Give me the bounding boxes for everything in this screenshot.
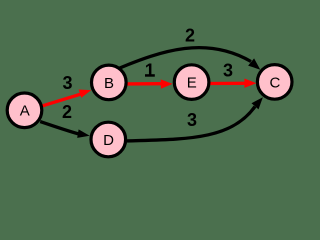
- node E: [174, 65, 209, 100]
- arrowhead of edge A-B (red): [79, 90, 92, 98]
- svg-text:C: C: [269, 74, 280, 91]
- label 1 on edge B-E: [145, 61, 155, 81]
- svg-text:D: D: [103, 132, 114, 149]
- arrowhead of edge E-C (red): [244, 79, 256, 88]
- wire: edge D-C (bottom curve): [125, 107, 255, 142]
- arrowhead of edge B-E (red): [161, 79, 173, 88]
- node D: [91, 122, 126, 157]
- wire: edge E-C (red path segment): [208, 82, 246, 85]
- svg-text:3: 3: [62, 73, 72, 93]
- wire: edge B-E (red path segment): [122, 82, 162, 86]
- node B: [92, 65, 127, 100]
- svg-text:B: B: [104, 75, 114, 92]
- svg-text:3: 3: [223, 61, 233, 81]
- svg-text:1: 1: [145, 61, 155, 81]
- svg-text:3: 3: [187, 110, 197, 130]
- wire: edge A-B (red path segment): [43, 94, 81, 106]
- svg-text:2: 2: [185, 26, 195, 46]
- svg-text:E: E: [187, 74, 197, 91]
- arrowhead of edge D-C: [252, 97, 263, 109]
- arrowhead of edge B-C: [248, 58, 260, 69]
- arrowhead of edge A-D: [77, 129, 90, 138]
- wire: edge A-D: [40, 122, 78, 134]
- node C: [257, 65, 292, 100]
- wire: edge B-C (top curve): [116, 48, 251, 70]
- svg-text:A: A: [20, 103, 30, 120]
- node A: [7, 93, 42, 128]
- svg-text:2: 2: [62, 102, 72, 122]
